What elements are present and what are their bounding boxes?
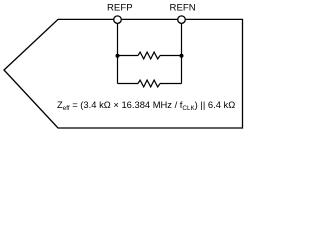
resistor R2 (bottom branch zigzag) — [138, 80, 160, 87]
wire bottom branch left — [118, 83, 139, 85]
node junction dot left — [116, 54, 120, 58]
node junction dot right — [180, 54, 184, 58]
wire bottom branch right — [160, 83, 182, 85]
wire top branch right — [160, 55, 182, 57]
svg-text:REFN: REFN — [170, 2, 196, 13]
wire REFP vertical — [117, 20, 119, 84]
resistor R1 (top branch zigzag) — [138, 52, 160, 59]
svg-text:Zeff = (3.4 kΩ × 16.384 MHz /: Zeff = (3.4 kΩ × 16.384 MHz / fCLK) || 6… — [57, 99, 235, 112]
wire REFN vertical — [181, 20, 183, 84]
terminal REFN — [178, 16, 186, 24]
wire top branch left — [118, 55, 139, 57]
chip input port outline (pentagon) — [4, 19, 243, 128]
svg-text:REFP: REFP — [107, 2, 133, 13]
terminal REFP — [114, 16, 122, 24]
